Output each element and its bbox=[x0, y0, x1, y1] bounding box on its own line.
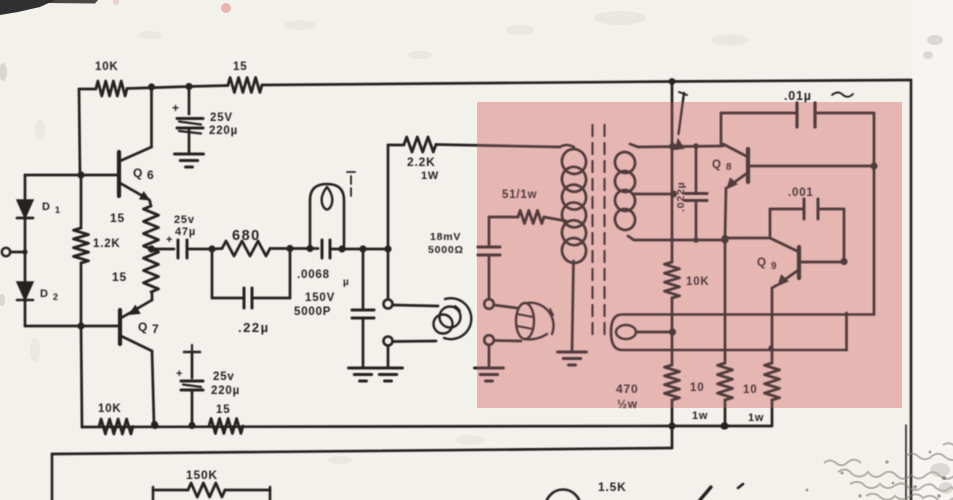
svg-text:18mV: 18mV bbox=[430, 231, 461, 243]
svg-text:1: 1 bbox=[55, 205, 61, 215]
svg-text:2.2K: 2.2K bbox=[407, 155, 436, 169]
svg-text:220µ: 220µ bbox=[209, 125, 238, 137]
svg-text:1W: 1W bbox=[421, 170, 439, 182]
svg-text:D: D bbox=[42, 201, 51, 213]
svg-text:1.2K: 1.2K bbox=[93, 238, 121, 250]
svg-text:150V: 150V bbox=[305, 292, 335, 304]
svg-text:25v: 25v bbox=[213, 371, 235, 383]
svg-text:150K: 150K bbox=[186, 468, 218, 482]
svg-text:Q: Q bbox=[133, 166, 143, 180]
svg-text:+: + bbox=[172, 101, 179, 115]
svg-text:1w: 1w bbox=[748, 412, 764, 424]
svg-text:+: + bbox=[166, 234, 172, 246]
svg-text:15: 15 bbox=[233, 61, 247, 73]
svg-text:220µ: 220µ bbox=[211, 385, 240, 397]
svg-text:47µ: 47µ bbox=[175, 226, 196, 238]
svg-text:5000P: 5000P bbox=[294, 306, 331, 318]
svg-text:Q: Q bbox=[138, 320, 148, 334]
svg-text:680: 680 bbox=[232, 228, 261, 244]
svg-text:25V: 25V bbox=[210, 112, 233, 124]
svg-text:10K: 10K bbox=[95, 61, 119, 73]
svg-text:7: 7 bbox=[152, 322, 159, 336]
svg-text:.0068: .0068 bbox=[297, 269, 330, 281]
svg-text:µ: µ bbox=[343, 277, 350, 288]
svg-text:1.5K: 1.5K bbox=[598, 480, 627, 494]
svg-text:15: 15 bbox=[110, 211, 125, 225]
svg-text:15: 15 bbox=[216, 404, 230, 416]
svg-text:.22µ: .22µ bbox=[238, 320, 270, 335]
svg-text:15: 15 bbox=[112, 270, 127, 284]
svg-text:6: 6 bbox=[147, 168, 154, 182]
svg-text:10K: 10K bbox=[98, 403, 122, 415]
svg-text:25v: 25v bbox=[174, 214, 195, 226]
svg-text:1w: 1w bbox=[692, 410, 708, 422]
svg-text:.01µ: .01µ bbox=[784, 89, 812, 103]
svg-text:2: 2 bbox=[53, 292, 59, 302]
svg-text:+: + bbox=[176, 368, 182, 380]
svg-text:5000Ω: 5000Ω bbox=[428, 244, 464, 256]
svg-text:D: D bbox=[40, 288, 49, 300]
